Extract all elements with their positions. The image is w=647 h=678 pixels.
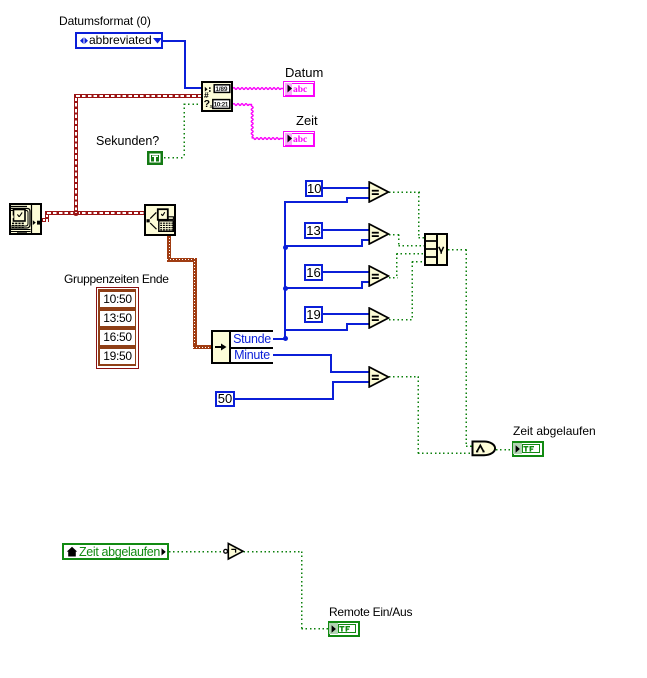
svg-text:abc: abc [293, 135, 307, 145]
svg-text:abc: abc [293, 85, 307, 95]
svg-text:1/89: 1/89 [215, 86, 227, 93]
svg-text:10:21: 10:21 [214, 101, 229, 108]
